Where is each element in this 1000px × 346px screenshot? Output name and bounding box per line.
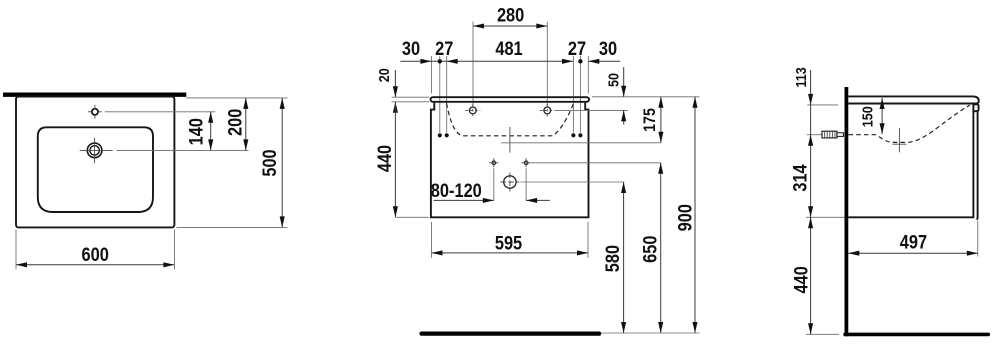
dimension 440 (side view) bbox=[790, 217, 813, 334]
dimension 440 (front view) bbox=[374, 102, 398, 218]
washbasin outer outline (top view) bbox=[16, 97, 174, 228]
water connection valve (side view) bbox=[822, 131, 844, 138]
extension line for 497 bbox=[977, 221, 979, 257]
svg-text:500: 500 bbox=[259, 149, 281, 176]
tap hole symbol right (front view) bbox=[540, 104, 555, 117]
tap hole symbol left (front view) bbox=[465, 104, 480, 117]
dimension 595 bbox=[432, 232, 589, 255]
cabinet outline (side view) bbox=[848, 111, 973, 217]
dimension 80-120 bbox=[431, 179, 550, 202]
svg-text:280: 280 bbox=[497, 4, 524, 26]
extension lines from top dims down to holes (front view) bbox=[430, 56, 432, 94]
wall line (side view) bbox=[845, 87, 849, 336]
dimension 314 bbox=[789, 164, 813, 217]
extension cabinet bottom left bbox=[395, 216, 428, 218]
ceramic front lip (side view) bbox=[973, 104, 978, 111]
svg-text:150: 150 bbox=[858, 106, 875, 127]
floor extension line thin bbox=[601, 332, 700, 334]
dimension 500 bbox=[259, 98, 285, 228]
dimension 497 bbox=[848, 231, 978, 255]
reference line cabinet bottom (side view) bbox=[806, 216, 845, 218]
siphon outlet symbol (front view) bbox=[500, 173, 519, 192]
top dimension line (30/27/481/27/30) bbox=[400, 60, 573, 62]
svg-text:440: 440 bbox=[374, 145, 396, 172]
basin hidden outline (side view) bbox=[849, 105, 970, 142]
dimension 900 bbox=[674, 97, 697, 333]
dimension 600 bbox=[16, 244, 174, 267]
dimension column line (side view) bbox=[810, 70, 812, 334]
svg-text:140: 140 bbox=[185, 118, 207, 145]
floor line (side view) bbox=[845, 333, 988, 337]
dimension 650 bbox=[639, 163, 663, 333]
mounting point right (front view) bbox=[522, 158, 531, 167]
drain (top view) bbox=[80, 138, 113, 164]
dimension 280 bbox=[473, 4, 547, 28]
svg-text:175: 175 bbox=[641, 108, 659, 132]
svg-text:595: 595 bbox=[495, 232, 522, 254]
dimension 20 bbox=[375, 68, 398, 113]
drain centerline (side view) bbox=[893, 128, 907, 152]
dimension 175 bbox=[641, 97, 664, 143]
drawer front outer line (side view) bbox=[976, 112, 977, 220]
tap hole (top view) bbox=[88, 105, 102, 119]
dimension 50 bbox=[604, 67, 626, 125]
extension line siphon to 580 bbox=[520, 181, 624, 183]
extension lines 80-120 bbox=[493, 168, 495, 200]
svg-text:600: 600 bbox=[82, 244, 109, 266]
svg-text:314: 314 bbox=[789, 164, 811, 191]
svg-text:440: 440 bbox=[790, 266, 812, 293]
arrow 30 right bbox=[588, 59, 599, 64]
extension lines for 600 bbox=[15, 230, 17, 270]
reference lines for 20 bbox=[392, 96, 430, 98]
dimension 150 bbox=[858, 98, 884, 134]
svg-text:481: 481 bbox=[495, 38, 522, 60]
extension line through valve bbox=[807, 134, 822, 136]
basin hidden outline (front view) bbox=[447, 103, 574, 136]
fixing holes (dots) bbox=[438, 133, 442, 137]
svg-text:30: 30 bbox=[599, 38, 617, 60]
extension lines for 280 bbox=[472, 22, 474, 107]
svg-text:497: 497 bbox=[900, 231, 927, 253]
dot 27 left bbox=[438, 59, 442, 63]
extension line ceramic top to 900 bbox=[592, 96, 700, 98]
svg-text:27: 27 bbox=[435, 38, 453, 60]
floor line thick (front view) bbox=[422, 332, 600, 336]
arrow 30 left bbox=[420, 59, 431, 64]
svg-text:580: 580 bbox=[602, 245, 624, 272]
dimension 580 bbox=[602, 182, 626, 333]
dot 27 right bbox=[578, 59, 582, 63]
ceramic top slab (front view) bbox=[431, 97, 590, 102]
extension line mounting points to 650 bbox=[531, 162, 661, 164]
drain centerline (front view) bbox=[509, 127, 511, 153]
svg-text:20: 20 bbox=[375, 68, 392, 82]
svg-text:113: 113 bbox=[792, 67, 809, 88]
basin inner bowl outline (top view) bbox=[38, 127, 153, 212]
svg-text:80-120: 80-120 bbox=[431, 179, 482, 201]
dimension 113 bbox=[792, 67, 813, 146]
extension lines for 595 bbox=[431, 222, 433, 258]
extension line top right bbox=[186, 97, 287, 99]
extension line tap hole right to 50 bbox=[555, 109, 628, 111]
extension line from drain bbox=[117, 149, 249, 151]
cabinet outline (front view) bbox=[431, 103, 589, 218]
extension line bottom right bbox=[177, 226, 288, 228]
extension line from tap hole bbox=[105, 111, 215, 113]
arrow 481 right bbox=[562, 59, 573, 64]
svg-text:650: 650 bbox=[639, 236, 661, 263]
svg-text:30: 30 bbox=[402, 38, 420, 60]
svg-text:900: 900 bbox=[674, 204, 696, 231]
dimension 140 bbox=[185, 112, 213, 151]
wall line (top view, back edge) bbox=[3, 92, 186, 96]
svg-text:200: 200 bbox=[224, 109, 246, 136]
arrow 481 left bbox=[447, 59, 458, 64]
svg-text:50: 50 bbox=[604, 73, 621, 87]
ceramic top slab (side view) bbox=[848, 96, 979, 103]
mounting point left (front view) bbox=[489, 158, 498, 167]
svg-text:27: 27 bbox=[568, 38, 586, 60]
reference line for 113 bbox=[807, 104, 838, 106]
dimension 200 bbox=[224, 98, 248, 150]
reference line floor (side view) bbox=[806, 333, 839, 335]
drain tick / extension to 175 bbox=[501, 142, 661, 144]
